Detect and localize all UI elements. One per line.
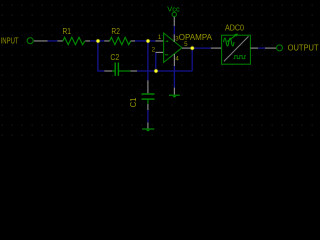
node B junction dot — [146, 39, 150, 43]
wire C1 bottom pin stub — [147, 104, 149, 110]
ADC sine wave symbol — [224, 38, 234, 46]
port INPUT terminal circle — [27, 38, 33, 44]
svg-text:R2: R2 — [111, 27, 120, 36]
wire R1 left pin stub — [57, 40, 63, 42]
wire op-amp pin 5 stub — [182, 47, 191, 49]
svg-text:1: 1 — [158, 34, 162, 41]
ground (below C1) — [142, 129, 154, 132]
capacitor C1 — [142, 94, 155, 104]
wire INPUT to R1 — [48, 40, 58, 42]
wire op-amp pin 3 stub — [173, 34, 175, 42]
wire node B down to C1 — [147, 41, 149, 80]
ADC sweep arrow — [227, 34, 238, 42]
wire Vcc to pin 3 — [173, 26, 175, 34]
wire ground pin stub (op-amp) — [173, 88, 175, 95]
svg-text:5: 5 — [184, 41, 188, 48]
wire pin 4 to ground — [173, 66, 175, 88]
wire op-amp pin 1 stub — [155, 40, 163, 42]
svg-text:2: 2 — [152, 47, 156, 54]
wire output node to ADC — [192, 47, 211, 49]
svg-text:ADC0: ADC0 — [225, 23, 245, 32]
op-amp inverting input dash marker — [165, 54, 168, 56]
wire node A down to C2 — [98, 41, 104, 71]
wire C2 left pin stub — [104, 70, 112, 72]
power Vcc terminal circle — [172, 12, 176, 16]
wire C2 to feedback node and output node — [137, 70, 192, 72]
wire C1 top pin stub — [147, 80, 149, 93]
ADC square wave symbol — [234, 56, 246, 59]
wire R2 right pin stub — [131, 40, 135, 42]
svg-text:R1: R1 — [63, 27, 72, 36]
svg-text:C1: C1 — [129, 98, 138, 108]
wire Vcc pin stub — [173, 17, 175, 26]
ADC diagonal separator — [224, 36, 249, 61]
node feedback junction dot — [154, 69, 158, 73]
resistor R2 — [110, 37, 131, 44]
wire R2 to node B — [135, 40, 148, 42]
resistor R1 — [63, 37, 85, 44]
svg-text:C2: C2 — [110, 53, 119, 62]
capacitor C2 — [112, 63, 130, 76]
wire output node down to feedback — [191, 48, 193, 71]
wire op-amp pin 2 stub — [156, 51, 164, 53]
wire ADC to OUTPUT — [258, 47, 265, 49]
wire C1 to ground — [147, 110, 149, 123]
port OUTPUT terminal circle — [277, 45, 283, 51]
ground (op-amp pin 4) — [169, 95, 180, 98]
wire node A to R2 — [98, 40, 104, 42]
wire ADC left pin stub — [211, 47, 222, 49]
wire ADC right pin stub — [250, 47, 258, 49]
wire op-amp pin 4 stub — [173, 54, 175, 66]
wire INPUT pin stub — [34, 40, 48, 42]
svg-text:INPUT: INPUT — [1, 37, 19, 46]
wire feedback up to op-amp pin 2 — [155, 52, 157, 71]
wire OUTPUT pin stub — [265, 47, 276, 49]
svg-text:3: 3 — [175, 36, 179, 43]
svg-text:OUTPUT: OUTPUT — [288, 44, 319, 53]
node output junction dot — [190, 46, 194, 50]
svg-text:4: 4 — [175, 56, 179, 63]
wire node B to op-amp pin 1 — [148, 40, 155, 42]
ADC U2 box — [222, 35, 251, 64]
node A junction dot — [96, 39, 100, 43]
wire R1 to node A — [90, 40, 98, 42]
op-amp U1 triangle — [164, 33, 182, 62]
wire R2 left pin stub — [104, 40, 110, 42]
wire C2 right pin stub — [130, 70, 137, 72]
wire ground pin stub — [147, 123, 149, 129]
wire R1 right pin stub — [85, 40, 90, 42]
op-amp non-inverting input arrow marker — [165, 40, 168, 42]
